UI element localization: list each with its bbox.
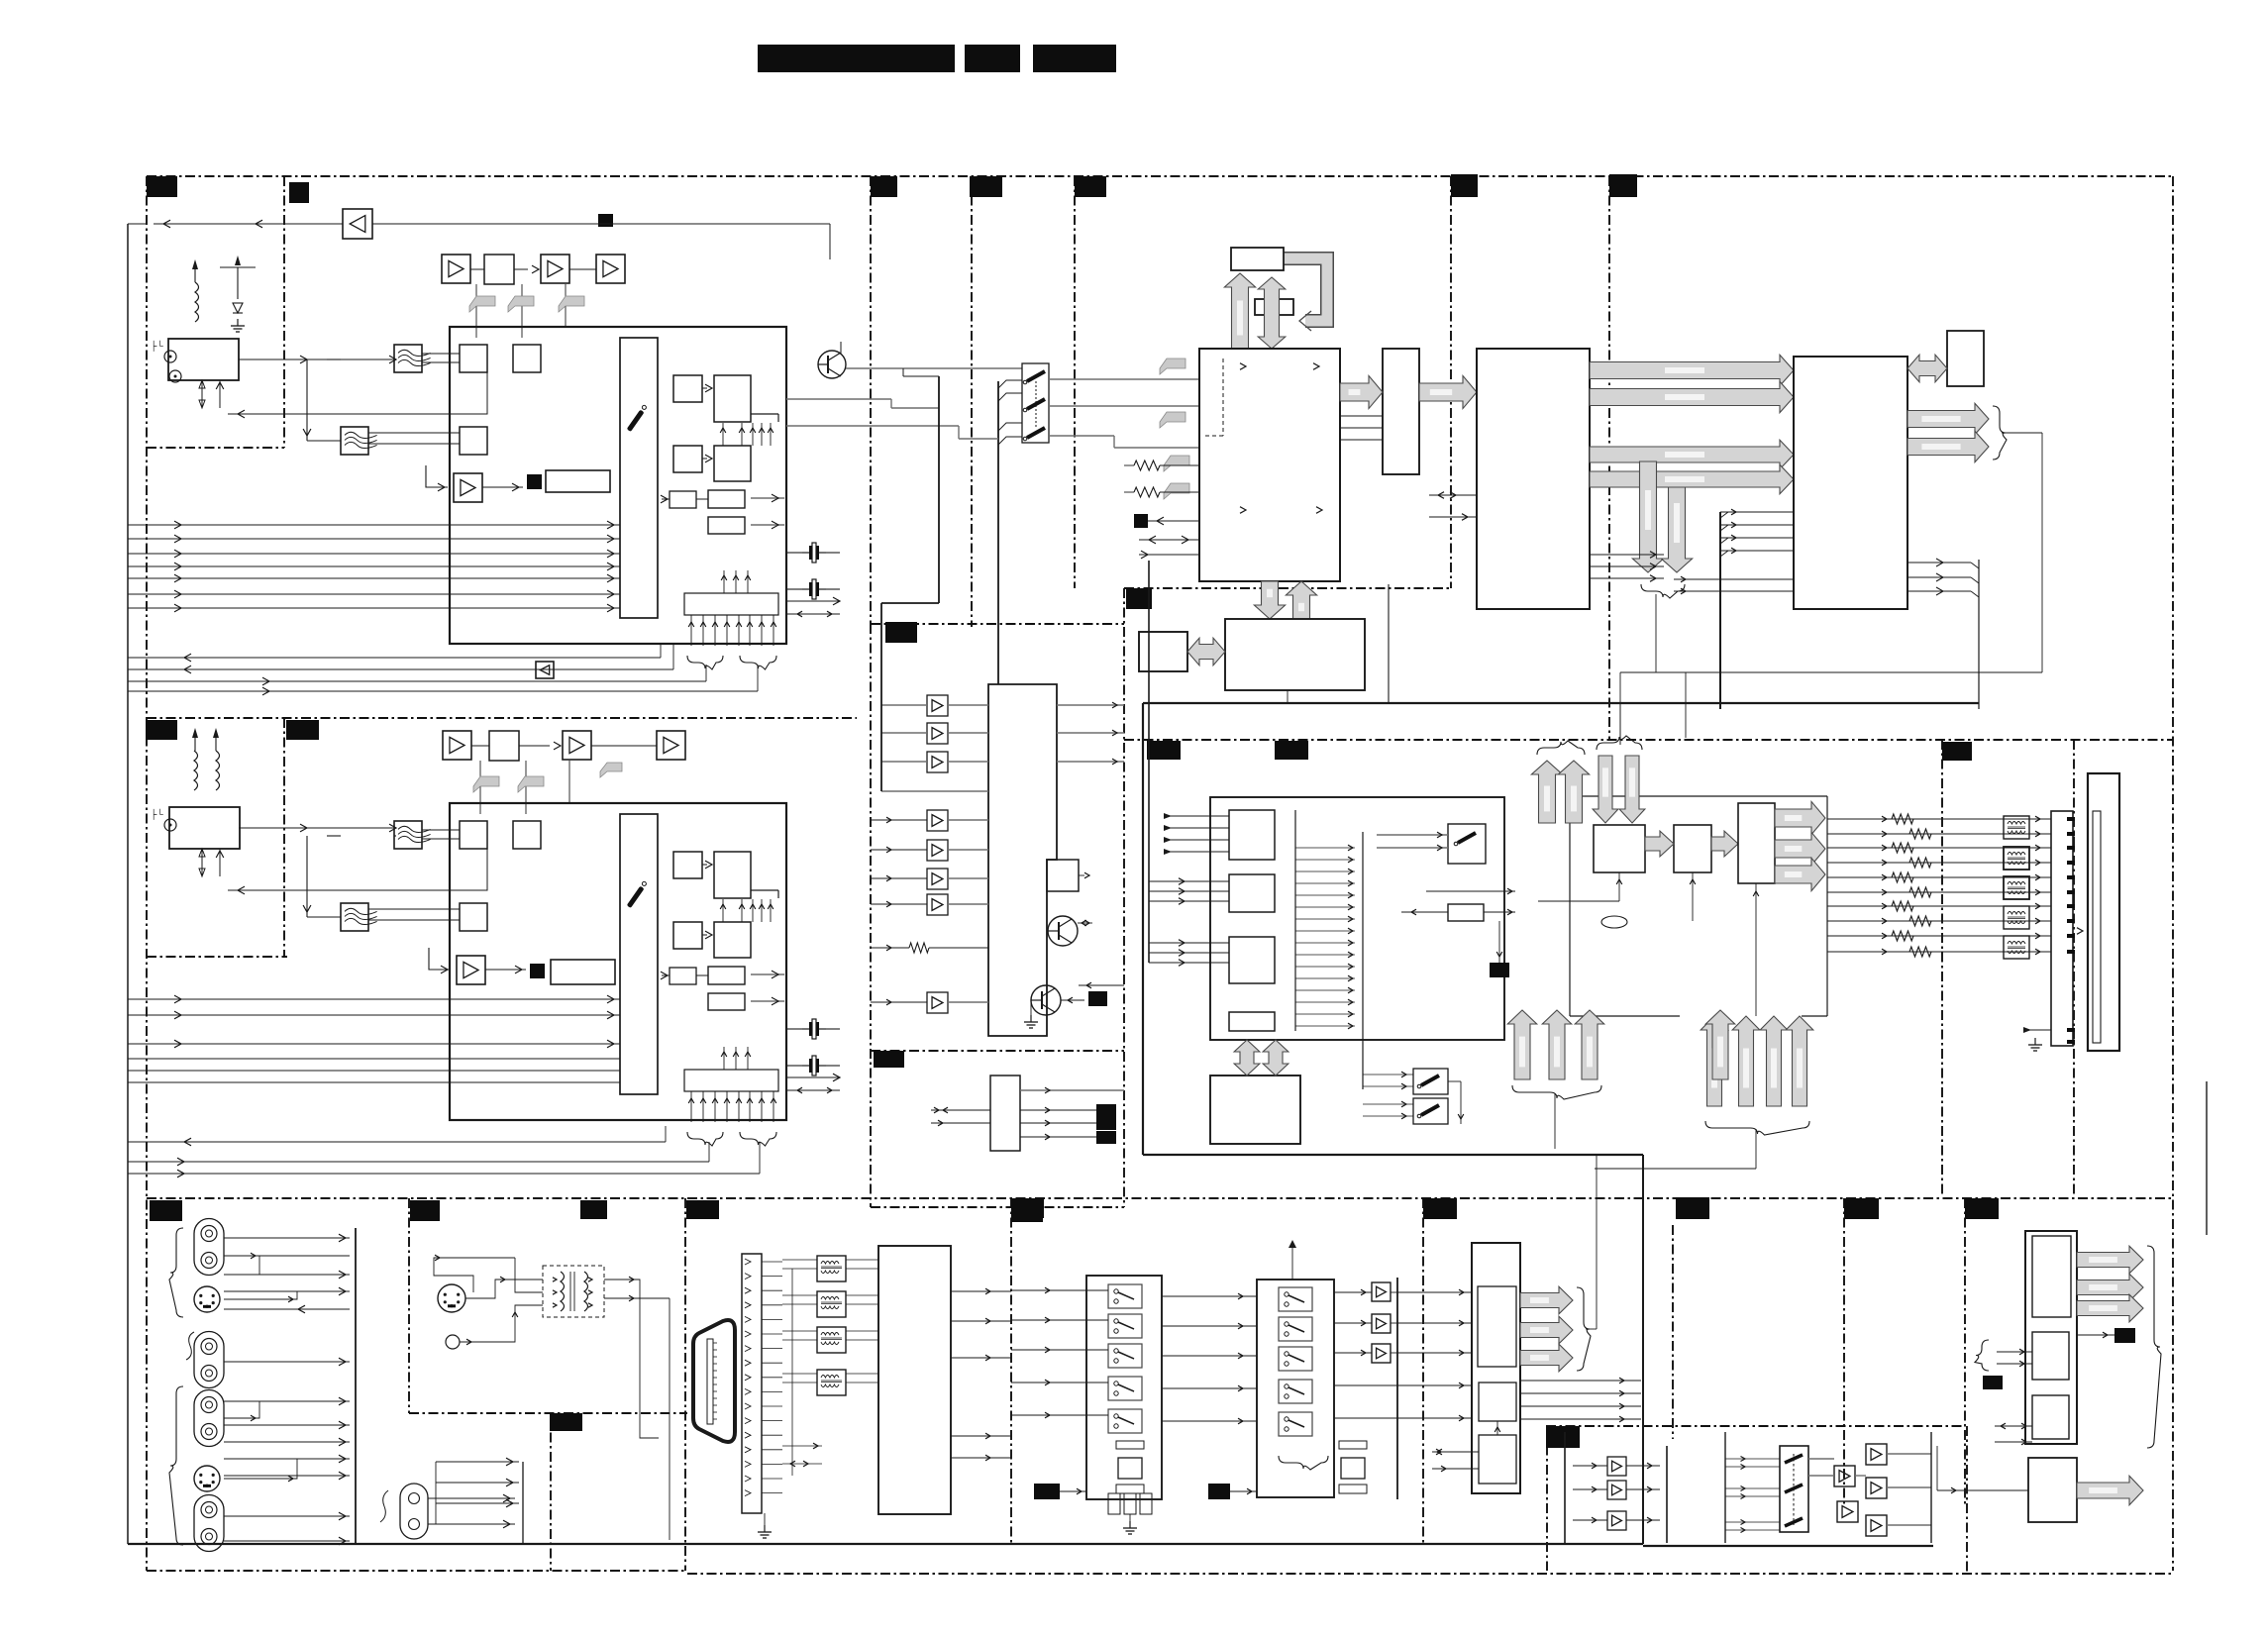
tuner2 section top border [147,717,857,719]
3 gray up arrows bottom soc [1507,1010,1536,1079]
if2 box 2 [513,821,541,849]
label block lvds [1942,742,1972,761]
divider x1961 [1941,740,1943,1194]
svhs wires [465,1280,543,1298]
wire bundle tuner1 return [128,657,661,659]
audio q2 label [1088,991,1107,1006]
dac sub 3 [1479,1435,1516,1484]
if2 box F [708,967,745,984]
black label small [1490,963,1509,977]
if1 vco box A [673,375,702,402]
timing box A [1594,825,1645,872]
if1 flags [475,284,477,338]
hp out amps [1866,1444,1887,1465]
svhs sub-section [408,1198,410,1413]
title redaction bar 3 [1033,45,1116,72]
tuner1 input unit [168,339,239,380]
if1 pin header [684,593,778,615]
ddr feedback box 1 [1231,248,1284,270]
if1 braces under header [687,656,723,669]
lvds bus turns down [1632,461,1663,572]
ellipse bead [1601,916,1627,928]
video out container box [1143,702,1979,704]
bus demod to adc [1340,375,1383,408]
if1 box F [708,490,745,508]
if2 box E [670,968,696,984]
if2 audio black label [530,964,545,978]
dac sub 2 [1479,1383,1516,1421]
left bus vertical [127,224,129,1544]
svhs small circle [446,1335,460,1349]
gray up arrows pair soc [1531,761,1562,823]
lvds container outline [1585,795,1827,797]
label block spk2 [1965,1198,1999,1219]
label block sw1 [1011,1198,1044,1218]
power wires [428,1497,515,1499]
audio dsp ic [988,684,1057,1036]
gray wires if1 to mux [786,398,891,400]
label block B1 [871,176,897,197]
woofer arrow out [2077,1476,2143,1504]
if1 mixer box 1 [460,345,487,372]
if1 aux out [786,600,840,602]
av braces [169,1228,183,1317]
bottom rail right [1643,1545,1933,1547]
bus scaler-osd [1907,355,1947,382]
panel filters [2004,816,2029,839]
audio outputs right [1057,704,1124,706]
dac line outs [1520,1380,1641,1382]
if1 amp row [442,255,470,283]
if1 saw filter 2 [341,427,368,455]
if2 saw filter 1 [394,821,422,849]
if2 crystal 2 [802,1065,809,1067]
headphone sub ic [990,1076,1020,1151]
sub ic mid arrows [1295,847,1355,849]
inner sub ic big [1210,797,1504,1040]
if2 agc return wire [228,872,487,890]
if2 crystal 1 [802,1028,809,1030]
label block C1 [1451,174,1478,197]
divider x1437 bottom [1422,1198,1424,1543]
divider x1465 [1450,176,1452,588]
transistor Q1 [818,351,846,378]
audio ctrl lines right [1079,984,1124,986]
switch bank 2 [1257,1280,1334,1497]
if2 audio out box [551,960,615,984]
tuner2 rf wire out [239,827,396,829]
audio in amps [927,695,948,716]
sub block 3 [1229,937,1275,983]
bank1 inputs [1011,1289,1108,1291]
label block A2 [289,182,309,203]
if1 saw filter 1 [394,345,422,372]
if2 box D [714,922,751,958]
if1 audio out box [546,470,610,492]
dac bidir in [1432,1451,1479,1453]
audio section border [871,623,1124,625]
inverter sub box [1210,1076,1300,1144]
gray bus loop [1278,258,1327,321]
scaler IC U4 [1794,357,1907,609]
divider x1862 bottom [1843,1198,1845,1505]
label block ctrl [1126,588,1152,609]
bottom rail left [128,1543,1643,1545]
if1 box C [673,446,702,472]
if1 container box [450,327,786,644]
label block tuner1 [147,176,177,197]
wire bundle aux [128,680,706,682]
audio amp wires [881,704,927,706]
if1 crystal 2 [802,588,809,590]
scaler osd box [1947,331,1984,386]
scaler left bus vertical [1719,512,1721,709]
svhs din connector [438,1284,465,1312]
if2 amp row [443,731,471,760]
title redaction bar 2 [965,45,1020,72]
hp in lines [931,1109,990,1111]
tuner2 sub-box [283,718,285,957]
tuner2 io arrows [201,849,203,876]
label block B3 [1075,176,1106,197]
hdmi gnd [764,1513,766,1525]
if1 audio amp [454,473,482,502]
if2 flags [479,761,481,814]
audio sub box [1047,860,1079,891]
label block B2 [970,176,1002,197]
label block audio2 [874,1051,904,1068]
bank1 to bank2 wires [1162,1295,1257,1297]
if1 crystal 1 [802,552,809,554]
lvds tx box [1738,803,1775,883]
hdmi filter wires [782,1259,817,1261]
label block av1 [150,1200,182,1221]
sub block 2 [1229,874,1275,912]
page registration line [2206,1081,2208,1235]
scaler out buses [1907,403,1989,434]
small box mid [1448,904,1484,921]
av din 2 [194,1466,220,1491]
av wires [224,1237,350,1239]
label block av3 [580,1200,607,1219]
title redaction bar 1 [758,45,955,72]
outer board border [147,175,2173,177]
av connector pair 1 [194,1219,224,1276]
audio transistor 2 [1031,985,1061,1015]
wire bundle tuner2 in [128,998,620,1000]
wire bundle tuner2 return [128,1141,666,1143]
bank2 out bus [1396,1278,1398,1499]
audio out dac block [1472,1243,1520,1493]
right up arrow bottom [1705,1010,1734,1079]
hp black labels [1096,1104,1116,1117]
if1 mixer box 3 [460,427,487,455]
if2 pin arrows mid [722,899,724,922]
hdmi misc [782,1445,822,1447]
label block spk1 [1844,1198,1879,1219]
if2 mixer box 1 [460,821,487,849]
speaker amp block [2025,1231,2077,1444]
woofer input [1937,1489,2028,1491]
av din 1 [194,1286,220,1312]
if2 saw filter 2 [341,903,368,931]
hdmi ic outs [951,1290,1011,1292]
return amp top-left [343,209,372,239]
if1 wire rf to saw2 [327,359,341,360]
wire q1 to mux [846,367,1022,369]
scaler aux outs [1907,562,1971,563]
main SoC U3 [1477,349,1590,609]
adc box U2 [1383,349,1419,474]
video container bottom stub [1642,1155,1644,1544]
audio sub divider [871,1050,1124,1052]
if1 pin arrows mid [722,423,724,446]
label block video1 [1147,741,1181,760]
if2 main ic [620,814,658,1094]
flags demod inputs [1160,359,1186,374]
ddr memory box [1225,619,1365,690]
hp strip inputs [1724,1432,1726,1543]
tuner2 input unit [169,807,240,849]
bank2 black label [1208,1484,1230,1499]
panel lcd [2088,773,2119,1051]
if2 aux out [786,1076,840,1078]
bus adc to soc [1419,375,1477,408]
soc output buses right [1590,355,1794,385]
divider x1021 bottom [1010,1198,1012,1543]
tuner1 rf wire out [239,359,396,360]
switch bank 1 [1086,1276,1162,1499]
spk inputs [1975,1340,1989,1371]
backlight up arrows [1701,1016,1728,1106]
tuner1 diode clamp [237,267,239,299]
audio feed line 2 [997,381,999,684]
if2 pin header [684,1070,778,1091]
label block tuner2 [146,720,177,740]
video processing section border [1124,739,2173,741]
if2 outputs right [751,973,784,975]
hp section amps [1564,1432,1566,1543]
if1 audio black label [527,474,542,489]
digital section bottom border [1124,587,1451,589]
svhs out wires [604,1280,659,1438]
hdmi connector [693,1320,735,1442]
black label demod in [1134,514,1148,528]
panel drive lines [1827,818,2051,820]
divider x1625 [1608,176,1610,740]
spk sub 3 [2032,1395,2069,1439]
label block hdmi [686,1200,719,1219]
tuner2 coil [194,751,198,790]
soc lower buses [1590,440,1794,468]
divider x879 [870,176,872,624]
bank2 out amps [1372,1282,1391,1301]
spk gray arrows [2077,1246,2143,1274]
bottom border left [147,1570,687,1572]
if2 box C [673,922,702,949]
sub block 4 [1229,1012,1275,1031]
tuner2 coil b [216,751,220,790]
divider x1689 bottom [1672,1225,1674,1439]
dac gray arrows out [1520,1286,1573,1314]
bus flash-mem [1187,638,1225,666]
audio gnd [1030,1015,1032,1022]
hp switch strip [1780,1446,1808,1532]
left-pointing small amp mid [536,662,554,678]
av section inner wall [355,1228,357,1229]
sub ic internal verts [1294,810,1296,1031]
if2 container box [450,803,786,1120]
panel gnd [2023,1029,2051,1031]
timing feed arrows [1618,872,1620,901]
label block E2 [286,720,319,740]
memory bus down [1254,581,1285,619]
hdmi vert feed [791,1269,793,1476]
brace lvds down [1641,584,1685,598]
line soc to bottom [1287,690,1289,703]
divider x1085 [1074,176,1076,588]
tuner1 section border [283,176,285,448]
headphone sub-section top [1546,1425,1965,1427]
if1 outputs right [751,497,784,499]
if2 vco box A [673,852,702,878]
bottom border right [687,1573,2173,1575]
if1 agc return wire [228,396,487,414]
divider x1562 bottom [1546,1426,1548,1571]
spk bidir [1995,1425,2032,1427]
av connector pair 3 [194,1390,224,1447]
label block hp [1546,1426,1580,1448]
if2 box G [708,993,745,1010]
bank1 black label [1034,1484,1060,1499]
tuner2 extra flag [600,763,622,777]
woofer box [2028,1458,2077,1522]
switch box small top [1448,824,1486,864]
divider x1984 bottom [1964,1198,1966,1505]
lvds big arrows out [1775,801,1825,834]
soc misc pins right [1590,554,1664,556]
bank1 caps below [1116,1441,1144,1449]
label block av2 [410,1200,440,1221]
if1 box D [714,446,751,481]
hdmi ic [878,1246,951,1514]
bus timing [1645,831,1674,857]
label block svhs [550,1413,582,1431]
hp out lines [1020,1089,1124,1091]
wire demod down to container [1388,584,1390,703]
if1 pll box B [714,375,751,422]
spk sub 2 [2032,1332,2069,1380]
audio left feed vertical [938,376,940,603]
av bus vertical [355,1228,357,1544]
sub block 1 [1229,810,1275,860]
if1 box E [670,491,696,508]
gray arrows inverter [1234,1040,1260,1076]
spk black label 1 [2114,1328,2135,1343]
svhs transformer [543,1266,604,1317]
if2 audio amp [457,956,485,984]
demodulator IC U1 [1199,349,1340,581]
label block C2 [1609,174,1637,197]
wire bundle bottom aux [128,1161,709,1163]
spk brace right [2147,1246,2161,1448]
label block audio [885,622,917,643]
ctrl vertical line [1148,561,1150,963]
if1 box 2 [513,345,541,372]
if2 pll box B [714,852,751,898]
av connector pair 4 [194,1495,224,1552]
if2 mixer box 3 [460,903,487,931]
scaler in pins left [1720,511,1794,513]
sub ic input arrows [1164,815,1229,817]
hdmi pin strip [742,1254,762,1513]
svg-text:├└: ├└ [151,808,163,820]
resistors demod inputs [1134,461,1160,470]
bottom band top border [147,1197,2173,1199]
hdmi filters [817,1256,846,1281]
ddr feedback box 2 [1255,299,1293,315]
label block out2 [1676,1197,1709,1219]
video mux switch [1022,363,1049,443]
bank2 antenna [1291,1248,1293,1280]
av connector pair 2 [194,1332,224,1388]
if2 braces under header [687,1132,723,1146]
dac sub 1 [1478,1286,1516,1367]
if2 wire rf to saw2 [327,835,341,837]
panel connector strip [2051,811,2073,1046]
spk sub 1 [2032,1236,2071,1317]
switch pair mid bottom [1413,1069,1448,1094]
mux outputs right [1049,378,1199,380]
label block audio3 [1011,1205,1043,1222]
timing box B [1674,825,1711,872]
brace scaler out [1993,406,2007,460]
tuner1 coil [195,282,199,322]
bank2 caps below [1339,1441,1367,1449]
hp out wires [1808,1458,1834,1460]
label block video2 [1275,741,1308,760]
av inner links [224,1256,259,1275]
if1 main ic [620,338,658,618]
label small D [598,214,613,227]
if1 box G [708,517,745,534]
label block out1 [1423,1198,1457,1219]
tuner1 io arrows [201,380,203,408]
divider x692 bottom [684,1198,686,1571]
flash box [1139,632,1187,671]
gray down arrows from border [1593,756,1618,823]
audio resistor input [909,943,929,953]
divider x981 [971,176,973,627]
svg-text:├└: ├└ [151,340,163,352]
mux input steps [998,380,1022,388]
power connector [400,1484,428,1539]
divider x1986 lower [1966,1426,1968,1574]
divider x2094 [2073,740,2075,1194]
audio transistor 1 [1048,916,1078,946]
wire bundle tuner1 control [128,524,620,526]
spk black label 2 [1983,1376,2003,1389]
soc ctrl arrows left [1429,494,1477,496]
return wire top [372,223,830,225]
